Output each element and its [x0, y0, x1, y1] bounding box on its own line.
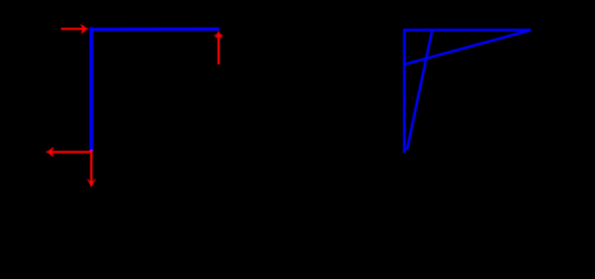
wire: left frame horizontal member (blue): [90, 27, 220, 31]
force F3: red arrow pointing left at bottom of vertical member: [46, 148, 91, 157]
member: right bracket top edge A-B (blue): [404, 29, 531, 32]
member: right bracket long diagonal B-C (blue): [404, 30, 531, 64]
force F1: red arrow pointing right into top-left corner: [61, 25, 89, 34]
force F2: red arrow pointing up at right end of horizontal member: [214, 31, 223, 65]
member: right bracket vertical edge A-D (blue): [403, 29, 406, 153]
force F4: red arrow pointing down below bottom of vertical member: [87, 150, 95, 188]
wire: left frame vertical member (blue): [90, 27, 94, 151]
member: right bracket steep diagonal E-F (blue): [407, 30, 432, 150]
